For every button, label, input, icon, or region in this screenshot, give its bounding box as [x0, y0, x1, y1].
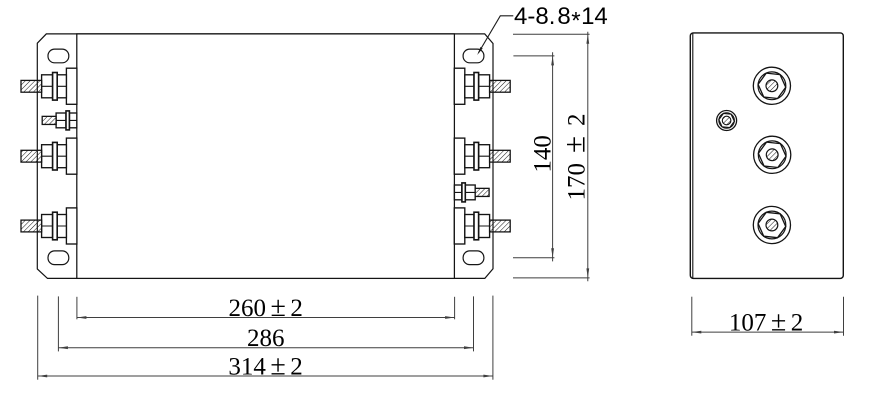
terminal R1 (right big, y=86.3): [454, 68, 510, 104]
terminal R2 (right big, y=156.2): [454, 138, 510, 174]
mounting slot bottom-left: [48, 251, 69, 265]
side view left inner edge: [692, 33, 694, 278]
svg-text:314±2: 314±2: [228, 350, 302, 381]
dim 170±2 vertical line: [513, 32, 590, 281]
terminal L3 (left big, y=226.0): [21, 208, 77, 244]
mounting slot bottom-right: [463, 251, 484, 265]
dim 260±2: [77, 297, 455, 320]
terminal R-small (right small, y=192.4): [454, 183, 489, 202]
mounting slot top-left: [48, 49, 69, 63]
terminal L1 (left big, y=86.3): [21, 68, 77, 104]
svg-text:286: 286: [247, 325, 285, 352]
dim 286: [58, 296, 473, 351]
svg-text:4-8.8*14: 4-8.8*14: [514, 3, 608, 35]
dim 314±2: [38, 296, 493, 380]
side terminal S2 (middle): [754, 136, 791, 173]
svg-text:260±2: 260±2: [229, 292, 303, 323]
side terminal S3 (bottom): [753, 206, 790, 243]
dim 107±2: [692, 297, 844, 336]
terminal R3 (right big, y=226.0): [454, 208, 510, 244]
leader 4-8.8*14: [479, 16, 514, 53]
terminal L-small (left small, y=120.4): [42, 111, 77, 130]
mounting flange plate outline (front view): [37, 34, 493, 279]
svg-text:140: 140: [529, 135, 556, 173]
filter body (front view): [77, 34, 455, 279]
terminal L2 (left big, y=156.2): [21, 138, 77, 174]
side view body: [690, 33, 843, 279]
side terminal S1 (top): [753, 67, 790, 104]
mounting slot top-right: [463, 49, 484, 63]
flange left edge segments over studs: [36, 80, 38, 92]
side terminal small: [717, 111, 737, 131]
flange right edge segments over studs: [492, 80, 494, 92]
svg-text:107±2: 107±2: [729, 306, 803, 337]
dim 140 vertical line: [513, 52, 554, 261]
